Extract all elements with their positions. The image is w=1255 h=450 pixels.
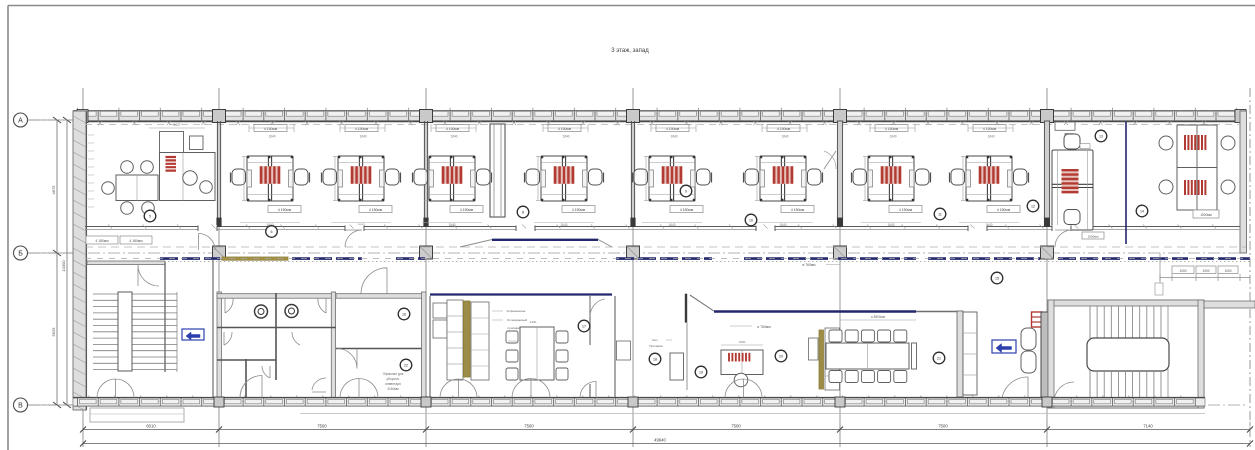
- room1 wall dimension ticks: [88, 135, 94, 207]
- desk cluster W2 left chair: [323, 169, 337, 185]
- svg-text:4 150мм: 4 150мм: [997, 208, 1011, 212]
- room1 desk red radiator hatch: [166, 157, 177, 171]
- corridor north wall line 1: [85, 226, 1240, 228]
- desk cluster W1 dimension box above: [254, 125, 287, 132]
- desk cluster W3 right chair: [477, 169, 491, 185]
- desk cluster W8 red radiator backing: [978, 166, 1000, 184]
- room R1 chair below: [1064, 210, 1080, 225]
- svg-text:1640: 1640: [359, 135, 366, 139]
- desk cluster W6 dimension box below: [781, 206, 814, 213]
- WC internal wall horizontal y=360: [217, 359, 276, 361]
- svg-text:4675: 4675: [51, 185, 56, 195]
- meeting room chairs above: [829, 330, 842, 342]
- lounge door arc: [1002, 377, 1028, 398]
- desk cluster W3 left chair: [414, 169, 428, 185]
- desk cluster W5 left chair: [634, 169, 648, 185]
- room1 L-desk body: [160, 153, 216, 201]
- keynote circle 12: [1027, 200, 1039, 212]
- svg-text:Офисные для: Офисные для: [383, 372, 404, 376]
- vestibule slant walls: [460, 240, 612, 248]
- meeting room long table: [826, 343, 909, 369]
- svg-text:15: 15: [995, 277, 999, 281]
- desk cluster W2 red radiator hatch: [352, 166, 370, 184]
- svg-text:1000: 1000: [1224, 269, 1231, 273]
- svg-text:10300: 10300: [61, 260, 66, 272]
- axis А circle marker: [14, 113, 28, 127]
- dining room left wall: [429, 296, 431, 398]
- WC internal wall vertical x=276: [275, 293, 277, 380]
- WC cluster left wall: [217, 292, 221, 403]
- room1 meeting table: [116, 175, 158, 201]
- desk cluster W1 right chair: [295, 169, 309, 185]
- WC internal wall horizontal y=327.5: [217, 327, 336, 329]
- desk cluster W8 group rect: [966, 156, 1012, 201]
- corridor navy glazing segments: [160, 257, 220, 260]
- left stair rail: [118, 292, 132, 371]
- pantry left wall: [614, 296, 616, 398]
- shaft walls between rooms: [490, 124, 505, 217]
- desk cluster W2 group rect: [338, 156, 384, 201]
- WC extractor fan left: [255, 305, 268, 318]
- desk cluster W4 group rect: [541, 156, 587, 201]
- vestibule navy glazing: [492, 239, 598, 241]
- desk cluster W6 center divider: [780, 156, 782, 201]
- desk cluster W5 red radiator hatch: [663, 166, 681, 184]
- desk cluster W3 dimension box above: [436, 125, 469, 132]
- left exterior wall: [73, 111, 86, 410]
- bottom dimension line 1: [83, 429, 1250, 431]
- desk cluster W1 group rect: [247, 156, 293, 201]
- svg-text:А: А: [18, 117, 23, 124]
- bottom exterior wall band: [73, 398, 1205, 406]
- svg-text:49640: 49640: [654, 438, 666, 443]
- svg-text:8: 8: [522, 211, 524, 215]
- top wall outer line: [73, 110, 1246, 112]
- bottom wall dark posts: [214, 397, 224, 407]
- desk cluster W4 center divider: [561, 156, 563, 201]
- svg-text:4 150мм: 4 150мм: [983, 127, 997, 131]
- keynote circle 8: [517, 206, 529, 218]
- desk cluster W7 corner dots: [868, 156, 870, 158]
- pantry cabinet: [617, 341, 631, 360]
- desk cluster W7 dimension box below: [889, 206, 922, 213]
- grid line x=83: [82, 88, 84, 447]
- left stair door arc: [138, 265, 159, 286]
- svg-text:Кофемашина: Кофемашина: [507, 309, 526, 313]
- desk cluster W6 corner dots: [760, 156, 762, 158]
- desk cluster W7 red radiator hatch: [882, 166, 900, 184]
- svg-text:инвентаря: инвентаря: [385, 382, 401, 386]
- svg-text:1640: 1640: [779, 223, 786, 227]
- desk cluster W3 desk edges: [429, 162, 475, 164]
- grid line x=219: [218, 88, 220, 447]
- keynote circle 17: [578, 320, 590, 332]
- grid line x=426: [425, 88, 427, 447]
- left stair right wall: [164, 262, 166, 372]
- wall junction tick marks bottom wall: [88, 396, 1184, 400]
- svg-text:прилавок: прилавок: [508, 326, 522, 330]
- kitchen counter boxes right: [471, 302, 489, 380]
- svg-text:5: 5: [149, 215, 151, 219]
- corridor door arc near room1: [199, 234, 216, 251]
- page frame top edge: [8, 5, 1255, 7]
- pantry desk: [670, 353, 684, 380]
- svg-text:Охлаждаемый: Охлаждаемый: [507, 318, 528, 322]
- svg-text:уборочн.: уборочн.: [386, 377, 399, 381]
- axis В circle marker: [14, 398, 28, 412]
- desk cluster W7 right chair: [916, 169, 930, 185]
- svg-text:2000: 2000: [739, 340, 746, 344]
- top wall column blocks at grid axes: [213, 110, 226, 123]
- kitchen2 table: [721, 350, 763, 375]
- WC cluster top wall: [217, 294, 336, 299]
- svg-text:9: 9: [685, 190, 687, 194]
- corridor door arc x=1055: [1055, 230, 1072, 247]
- svg-text:4 150мм: 4 150мм: [791, 208, 805, 212]
- right stair lower treads: [1090, 372, 1161, 402]
- grid line x=633: [632, 88, 634, 447]
- storage inner door arc: [337, 349, 357, 369]
- svg-text:4 150мм: 4 150мм: [558, 127, 572, 131]
- desk cluster W7 red radiator backing: [880, 166, 902, 184]
- storage divider wall y=348: [336, 348, 425, 350]
- desk cluster W7 center divider: [888, 156, 890, 201]
- left stair side wall x=177: [176, 292, 178, 372]
- WC door arcs: [225, 298, 233, 313]
- svg-text:3 этаж, запад: 3 этаж, запад: [611, 48, 649, 54]
- svg-text:1640: 1640: [670, 135, 677, 139]
- desk cluster W3 center divider: [449, 156, 451, 201]
- partition wall x=633: [630, 121, 632, 227]
- corridor wall door openings: [198, 225, 217, 232]
- lounge armchair 2: [1021, 351, 1036, 373]
- svg-text:Прилавок: Прилавок: [649, 344, 663, 348]
- lounge wardrobe: [963, 312, 977, 395]
- desk cluster W3 red radiator backing: [441, 166, 463, 184]
- desk cluster W8 dimension box above: [973, 125, 1006, 132]
- dining room navy top wall: [430, 293, 612, 295]
- keynote circle 9: [680, 185, 692, 197]
- conference chairs left: [506, 331, 518, 343]
- partition wall x=1047: [1044, 121, 1049, 227]
- desk cluster W7 dimension box above: [875, 125, 908, 132]
- desk cluster W1 corner dots: [247, 156, 249, 158]
- kitchen2 cabinets right small: [809, 338, 819, 360]
- svg-text:11: 11: [938, 213, 942, 217]
- room R1 top cabinets: [1055, 122, 1075, 130]
- svg-text:4 180мм: 4 180мм: [95, 239, 109, 243]
- room R1 dim box right: [1080, 144, 1090, 149]
- dashed line under top wall: [85, 124, 1240, 126]
- porch rectangle below left section: [90, 408, 184, 422]
- room1 bottom dimension boxes: [86, 236, 118, 244]
- keynote circle 18: [649, 353, 661, 365]
- axis Б secondary dotted line: [80, 261, 1250, 263]
- svg-text:5437: 5437: [173, 123, 180, 127]
- desk cluster W8 right chair: [1014, 169, 1028, 185]
- keynote circle 6: [266, 226, 278, 238]
- corridor north wall line 2: [85, 229, 1240, 231]
- WC extractor fan right: [285, 305, 298, 318]
- svg-text:13: 13: [1099, 135, 1103, 139]
- desk cluster W6 right chair: [808, 169, 822, 185]
- meeting room top wall grey: [916, 311, 963, 313]
- desk cluster W1 dimension box below: [268, 206, 301, 213]
- svg-text:6: 6: [271, 230, 273, 234]
- svg-text:1500мм: 1500мм: [1200, 213, 1211, 217]
- svg-text:2160мм: 2160мм: [387, 387, 398, 391]
- desk cluster W8 left dim line: [962, 157, 964, 201]
- kitchen olive strip: [464, 301, 471, 377]
- svg-text:1640: 1640: [562, 135, 569, 139]
- lounge exit sign: [992, 340, 1016, 353]
- axis А dash-dot line: [28, 119, 1246, 121]
- left vestibule exit sign: [182, 329, 204, 340]
- WC internal wall vertical x=246: [245, 359, 247, 403]
- svg-text:4 150мм: 4 150мм: [680, 208, 694, 212]
- top wall module joints: [78, 111, 1237, 122]
- conference chairs right: [556, 331, 568, 343]
- svg-text:1640: 1640: [450, 135, 457, 139]
- svg-text:22: 22: [404, 364, 408, 368]
- svg-text:Кюч: Кюч: [652, 338, 658, 342]
- desk cluster W3 dimension box below: [450, 206, 483, 213]
- svg-text:5625: 5625: [51, 327, 56, 337]
- desk cluster W2 desk edges: [338, 162, 384, 164]
- desk cluster W8 left chair: [951, 169, 965, 185]
- svg-text:18: 18: [653, 358, 657, 362]
- sidewalk line below building: [300, 413, 1205, 415]
- door swing near x=840: [824, 151, 836, 169]
- desk cluster W4 dimension box above: [548, 125, 581, 132]
- desk cluster W3 red radiator hatch: [443, 166, 461, 184]
- desk cluster W8 corner dots: [966, 156, 968, 158]
- storage top wall: [336, 294, 425, 299]
- kitchen2 left wall lower: [686, 323, 688, 390]
- svg-text:7500: 7500: [317, 424, 327, 429]
- desk cluster W3 group rect: [429, 156, 475, 201]
- column blocks at axis Б intersections: [213, 246, 226, 259]
- kitchen2 red hatch: [729, 353, 749, 362]
- WC cluster right wall: [331, 292, 335, 403]
- keynote circle 22: [400, 359, 412, 371]
- svg-text:4 150мм: 4 150мм: [899, 208, 913, 212]
- room R1 vertical desk cluster: [1052, 150, 1093, 230]
- desk cluster W6 dimension box above: [767, 125, 800, 132]
- svg-text:1640: 1640: [887, 223, 894, 227]
- grid line x=1250 (right, dash-dot): [1249, 88, 1251, 447]
- desk cluster W5 desk edges: [649, 162, 695, 164]
- desk cluster W7 group rect: [868, 156, 914, 201]
- dining door arc top right: [590, 299, 605, 317]
- desk cluster W5 red radiator backing: [661, 166, 683, 184]
- right stair block walls: [1048, 300, 1204, 408]
- svg-text:1500мм: 1500мм: [1088, 234, 1099, 238]
- desk cluster W2 dimension box above: [345, 125, 378, 132]
- svg-text:4 180мм: 4 180мм: [129, 239, 143, 243]
- desk cluster W4 red radiator backing: [553, 166, 575, 184]
- meeting room right wall: [957, 311, 963, 397]
- top wall stubs above: [78, 108, 1237, 111]
- room R2 red radiator hatch top: [1185, 135, 1205, 150]
- keynote circle 11: [934, 208, 946, 220]
- svg-text:4 150мм: 4 150мм: [666, 127, 680, 131]
- keynote circle 15: [991, 272, 1003, 284]
- svg-text:12: 12: [1031, 205, 1035, 209]
- right stair landing: [1087, 338, 1169, 371]
- desk cluster W2 corner dots: [338, 156, 340, 158]
- keynote circle 21: [933, 352, 945, 364]
- desk cluster W8 desk edges: [966, 162, 1012, 164]
- desk cluster W5 center divider: [669, 156, 671, 201]
- bottom wall inner line: [73, 397, 1205, 399]
- desk cluster W6 desk edges: [760, 162, 806, 164]
- svg-text:в 760мм: в 760мм: [802, 263, 816, 267]
- left stair treads: [93, 294, 177, 370]
- svg-text:4 150мм: 4 150мм: [460, 208, 474, 212]
- left dimension line 2: [66, 120, 68, 405]
- svg-text:1640: 1640: [889, 135, 896, 139]
- room1 L-desk small square: [190, 136, 204, 150]
- svg-text:4 150мм: 4 150мм: [369, 208, 383, 212]
- lounge red cabinet: [1032, 312, 1043, 327]
- desk cluster W6 left chair: [745, 169, 759, 185]
- left dimension line 1: [56, 120, 58, 405]
- keynote circle 16: [398, 308, 410, 320]
- desk cluster W6 red radiator hatch: [774, 166, 792, 184]
- left stair block top wall: [87, 261, 165, 265]
- storage right wall: [422, 292, 427, 403]
- meeting room chairs below: [829, 371, 842, 383]
- keynote circle 19: [695, 366, 707, 378]
- desk cluster W6 group rect: [760, 156, 806, 201]
- room1 chairs around meeting table: [121, 161, 134, 174]
- room R1 red radiator backing: [1062, 169, 1079, 193]
- partition wall x=219: [216, 121, 218, 227]
- lounge right wall dark: [1041, 312, 1048, 398]
- desk cluster W5 left dim line: [645, 157, 647, 201]
- desk cluster W2 right chair: [386, 169, 400, 185]
- svg-text:10: 10: [749, 219, 753, 223]
- storage corridor door arc: [361, 268, 387, 294]
- desk cluster W7 left dim line: [864, 157, 866, 201]
- page frame left edge: [7, 6, 9, 450]
- keynote circle 5: [144, 210, 156, 222]
- svg-text:19: 19: [699, 371, 703, 375]
- desk cluster W8 center divider: [986, 156, 988, 201]
- corridor light dashed line: [85, 246, 1246, 248]
- desk cluster W4 left dim line: [537, 157, 539, 201]
- svg-text:4 150мм: 4 150мм: [278, 208, 292, 212]
- svg-text:2400: 2400: [530, 320, 537, 324]
- bottom wall window rects: [80, 399, 97, 404]
- svg-text:а 8500мм: а 8500мм: [871, 315, 885, 319]
- kitchen counter boxes left: [433, 303, 447, 318]
- top wall window rects: [80, 111, 97, 116]
- right dim ticks: [1160, 277, 1250, 279]
- right dim vertical: [1159, 253, 1161, 295]
- wall junction tick marks top: [98, 121, 1206, 125]
- meeting room whiteboard: [912, 343, 917, 369]
- desk cluster W2 dimension box below: [359, 206, 392, 213]
- svg-text:7500: 7500: [524, 424, 534, 429]
- bottom wall module joints: [78, 398, 1196, 406]
- desk cluster W4 dimension box below: [562, 206, 595, 213]
- room R2 desk group 2x2: [1177, 125, 1217, 210]
- desk cluster W8 dimension box below: [987, 206, 1020, 213]
- axis В dash-dot line: [28, 404, 1246, 406]
- svg-text:6010: 6010: [146, 424, 156, 429]
- desk cluster W4 desk edges: [541, 162, 587, 164]
- svg-text:7500: 7500: [938, 424, 948, 429]
- partition wall x=426: [423, 121, 425, 227]
- desk cluster W7 desk edges: [868, 162, 914, 164]
- room1 desk chair: [183, 171, 197, 185]
- keynote circle 13: [1095, 130, 1107, 142]
- svg-text:и 760мм: и 760мм: [757, 325, 771, 329]
- desk cluster W5 dimension box above: [656, 125, 689, 132]
- svg-text:17: 17: [582, 325, 586, 329]
- desk cluster W5 group rect: [649, 156, 695, 201]
- desk cluster W2 center divider: [358, 156, 360, 201]
- desk cluster W2 red radiator backing: [350, 166, 372, 184]
- corridor olive ramp strip: [222, 257, 288, 260]
- svg-text:4 150мм: 4 150мм: [446, 127, 460, 131]
- svg-text:4 150мм: 4 150мм: [572, 208, 586, 212]
- right stair upper treads: [1090, 306, 1161, 338]
- desk cluster W4 right chair: [589, 169, 603, 185]
- kitchen2 chair: [734, 373, 748, 387]
- desk cluster W1 center divider: [267, 156, 269, 201]
- svg-text:Б: Б: [18, 250, 23, 257]
- svg-text:4 150мм: 4 150мм: [777, 127, 791, 131]
- room R1 chair above: [1064, 134, 1080, 149]
- meeting room dim: [840, 319, 916, 321]
- top wall inner face line: [73, 121, 1246, 123]
- desk cluster W4 red radiator hatch: [555, 166, 573, 184]
- svg-text:14: 14: [1140, 210, 1144, 214]
- kitchen2 navy top wall: [714, 310, 916, 312]
- dining top dim marks: [508, 340, 518, 342]
- bottom wall outer line: [73, 405, 1205, 407]
- keynote circle 20: [775, 350, 787, 362]
- desk cluster W5 dimension box below: [670, 206, 703, 213]
- desk cluster W8 red radiator hatch: [980, 166, 998, 184]
- kitchen2 olive strip: [819, 330, 824, 389]
- svg-text:4 150мм: 4 150мм: [264, 127, 278, 131]
- room1 L-desk upper cabinet: [160, 132, 184, 153]
- balcony double door arcs: [97, 379, 134, 398]
- svg-text:7500: 7500: [731, 424, 741, 429]
- svg-text:1000: 1000: [1202, 269, 1209, 273]
- kitchen2 entry wall: [685, 294, 687, 323]
- desk cluster W5 right chair: [697, 169, 711, 185]
- svg-text:7140: 7140: [1143, 424, 1153, 429]
- room1 side chair: [200, 181, 213, 194]
- partition wall x=840: [837, 121, 842, 227]
- svg-text:1640: 1640: [268, 135, 275, 139]
- axis Б circle marker: [14, 246, 28, 260]
- desk cluster W1 red radiator backing: [259, 166, 281, 184]
- svg-text:1640: 1640: [781, 135, 788, 139]
- kitchen2 table dim: [721, 344, 763, 346]
- keynote circle 10: [745, 214, 757, 226]
- room R2 red radiator hatch bottom: [1185, 180, 1205, 195]
- kitchen2 cabinets column: [825, 328, 840, 390]
- room R2 chairs four corners: [1159, 136, 1173, 150]
- top exterior wall band: [73, 111, 1246, 121]
- desk cluster W1 red radiator hatch: [261, 166, 279, 184]
